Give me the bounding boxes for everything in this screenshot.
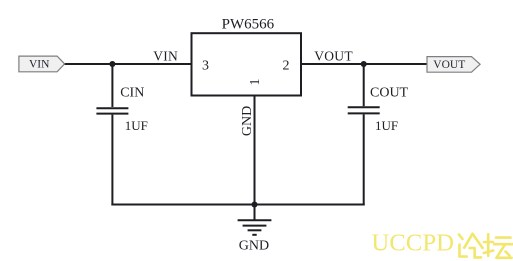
watermark Chinese char LUN (论): [459, 234, 483, 258]
node junction on VIN rail: [109, 61, 115, 67]
svg-text:UCCPD: UCCPD: [372, 229, 455, 256]
wire VIN rail (port to IC pin 3): [63, 63, 192, 65]
svg-text:VOUT: VOUT: [433, 59, 465, 71]
wire COUT branch top: [363, 63, 365, 106]
capacitor C2 COUT plates: [348, 106, 380, 108]
svg-text:COUT: COUT: [370, 86, 409, 101]
svg-text:1UF: 1UF: [375, 118, 398, 133]
svg-text:3: 3: [202, 59, 209, 74]
svg-text:GND: GND: [240, 106, 255, 136]
svg-text:1: 1: [248, 79, 263, 86]
watermark Chinese char TAN (坛): [484, 234, 513, 258]
port VOUT connector: [427, 57, 480, 73]
svg-text:VOUT: VOUT: [314, 48, 353, 63]
svg-text:VIN: VIN: [153, 48, 178, 63]
wire CIN branch bottom: [111, 115, 113, 206]
regulator U1 PW6566: [192, 17, 302, 96]
svg-text:1UF: 1UF: [125, 118, 148, 133]
port VIN connector: [19, 56, 65, 72]
ground symbol: [238, 220, 272, 235]
wire ground rail (bottom): [111, 204, 364, 206]
svg-text:2: 2: [283, 59, 290, 74]
wire COUT branch bottom: [363, 114, 365, 205]
svg-text:GND: GND: [239, 238, 269, 253]
wire CIN branch top: [111, 63, 113, 107]
svg-text:CIN: CIN: [120, 86, 144, 101]
svg-text:PW6566: PW6566: [222, 17, 275, 33]
wire GND pin to ground symbol: [254, 96, 256, 221]
node junction on VOUT rail: [361, 61, 367, 67]
capacitor C1 CIN plates: [96, 107, 128, 109]
svg-text:VIN: VIN: [29, 59, 50, 71]
wire VOUT rail (IC pin 2 to port): [300, 63, 428, 65]
node junction on ground rail: [251, 201, 257, 207]
